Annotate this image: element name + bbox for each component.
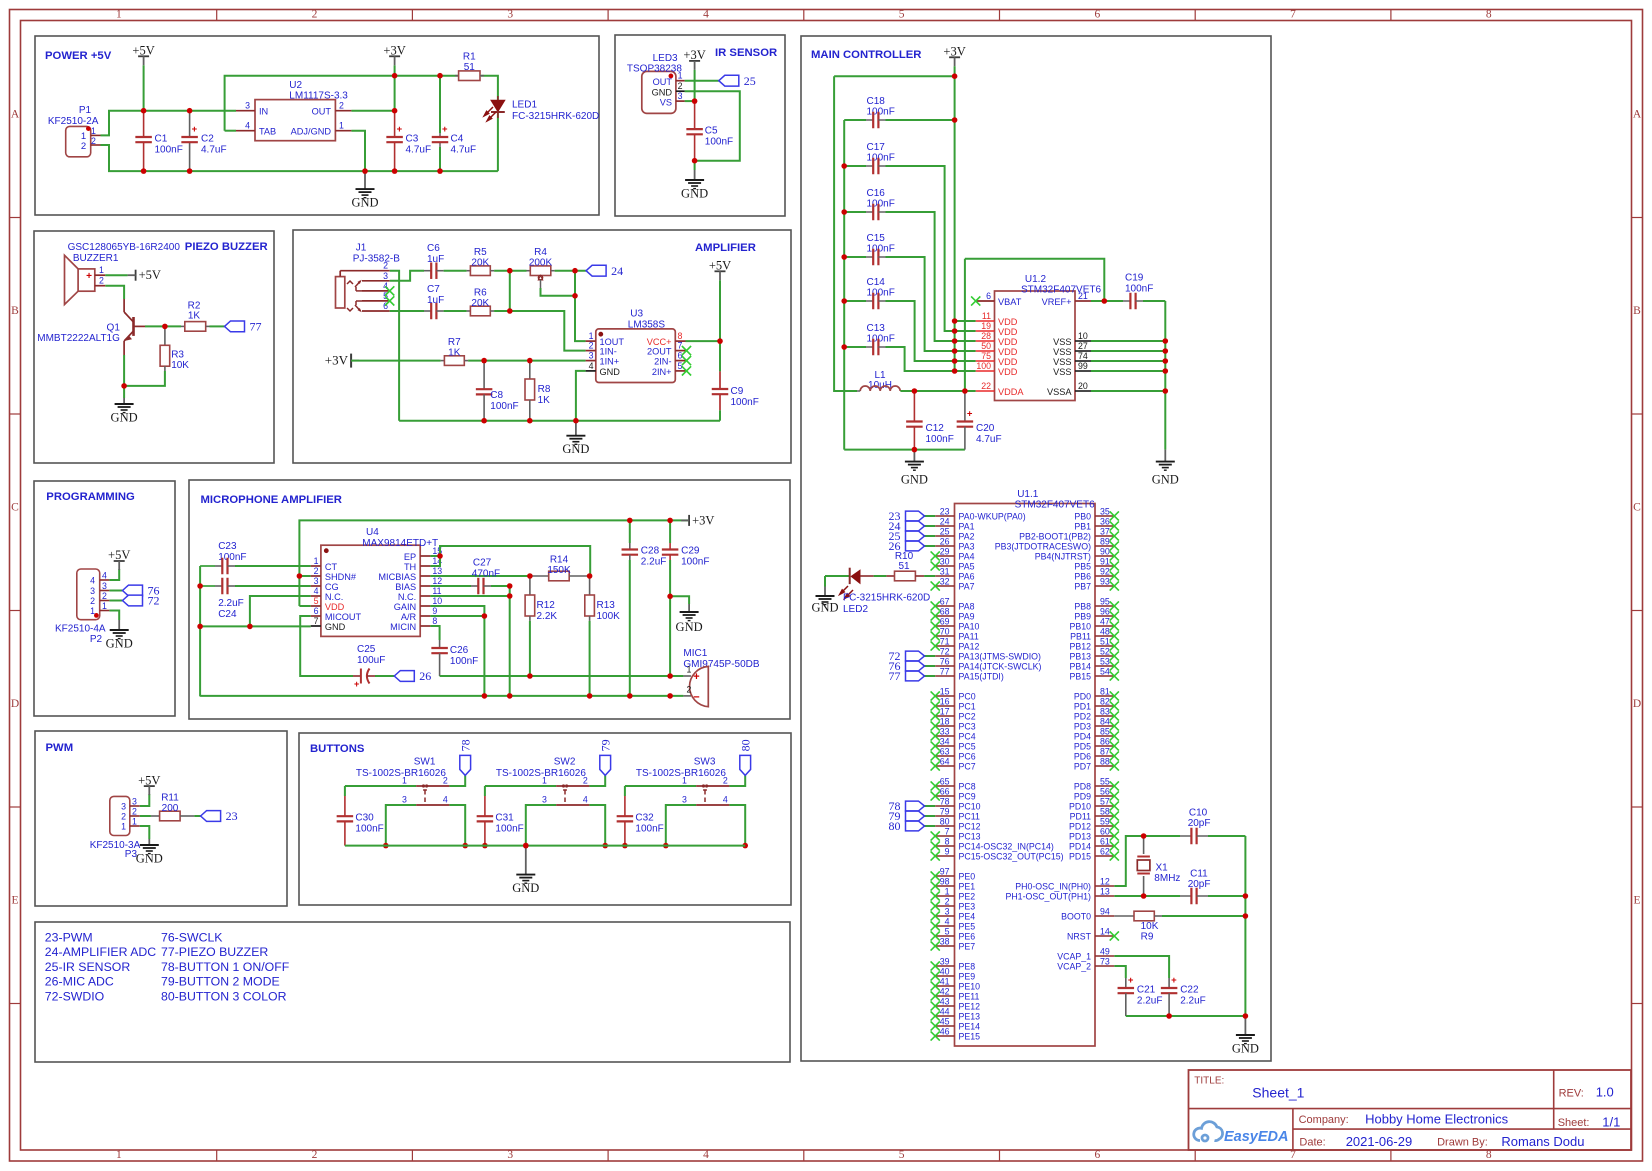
pin 94 BOOT0: [1095, 915, 1114, 917]
svg-text:P1: P1: [79, 105, 92, 116]
svg-text:2: 2: [91, 136, 96, 146]
svg-text:4: 4: [245, 121, 250, 131]
svg-text:3: 3: [132, 797, 137, 807]
pin 23 PA0-WKUP(PA0): [935, 515, 954, 517]
svg-text:39: 39: [940, 957, 950, 967]
pin 85 PD4: [1095, 735, 1114, 737]
wire ADJ to GND: [351, 131, 365, 171]
svg-text:E: E: [1633, 894, 1640, 906]
svg-text:93: 93: [1100, 577, 1110, 587]
svg-text:PC15-OSC32_OUT(PC15): PC15-OSC32_OUT(PC15): [959, 852, 1064, 862]
svg-text:2: 2: [383, 261, 388, 271]
svg-text:PC6: PC6: [959, 752, 976, 762]
svg-text:PE12: PE12: [959, 1002, 981, 1012]
wire C5 bottom to gnd: [694, 161, 696, 170]
svg-text:VSS: VSS: [1053, 337, 1071, 347]
svg-text:22: 22: [981, 381, 991, 391]
svg-text:20K: 20K: [471, 298, 489, 309]
svg-text:PE3: PE3: [959, 902, 976, 912]
wire C4 vertical: [439, 76, 441, 133]
svg-text:+5V: +5V: [132, 44, 154, 58]
svg-text:VBAT: VBAT: [998, 297, 1022, 307]
svg-text:PA0-WKUP(PA0): PA0-WKUP(PA0): [959, 512, 1026, 522]
svg-text:100nF: 100nF: [1125, 284, 1153, 295]
svg-text:20K: 20K: [471, 258, 489, 269]
capacitor C29 100nF: [669, 520, 671, 543]
svg-text:VDD: VDD: [998, 347, 1018, 357]
svg-text:SW1: SW1: [414, 757, 436, 768]
svg-text:EasyEDA: EasyEDA: [1224, 1129, 1288, 1145]
svg-text:2.2uF: 2.2uF: [218, 598, 244, 609]
svg-text:34: 34: [940, 737, 950, 747]
svg-text:STM32F407VET6: STM32F407VET6: [1021, 285, 1101, 296]
svg-text:46: 46: [940, 1027, 950, 1037]
svg-text:2.2uF: 2.2uF: [1180, 996, 1206, 1007]
+3V vertical: [954, 66, 956, 371]
svg-text:GND: GND: [600, 367, 621, 377]
wire P1.1 to U2.IN rail: [101, 111, 237, 136]
GAIN + A/R to rail: [430, 606, 484, 696]
svg-text:ADJ/GND: ADJ/GND: [291, 127, 332, 137]
pin 90 PB4(NJTRST): [1095, 555, 1114, 557]
svg-text:PB14: PB14: [1069, 662, 1091, 672]
svg-text:R7: R7: [448, 337, 461, 348]
svg-text:PB1: PB1: [1074, 522, 1091, 532]
pin 42 PE11: [935, 995, 954, 997]
svg-text:1: 1: [132, 817, 137, 827]
wire emitter to gnd: [123, 355, 125, 398]
U1.2 VREF wire over top: [964, 259, 966, 391]
svg-text:5: 5: [899, 1149, 905, 1161]
svg-text:+3V: +3V: [325, 353, 349, 368]
pin 66 PC9: [935, 795, 954, 797]
svg-text:3: 3: [245, 101, 250, 111]
+5V net flag: [715, 270, 726, 272]
svg-text:100nF: 100nF: [355, 824, 383, 835]
VSSA pin: [1075, 390, 1091, 392]
svg-text:VSSA: VSSA: [1047, 387, 1072, 397]
svg-text:PA10: PA10: [959, 622, 980, 632]
svg-text:PC11: PC11: [959, 812, 980, 822]
wire GND pin loop: [685, 91, 740, 161]
svg-text:C12: C12: [926, 423, 945, 434]
svg-text:4: 4: [90, 576, 95, 586]
svg-text:PA13(JTMS-SWDIO): PA13(JTMS-SWDIO): [959, 652, 1042, 662]
regulator U2 LM1117S-3.3: [255, 100, 335, 141]
svg-text:MMBT2222ALT1G: MMBT2222ALT1G: [37, 333, 120, 344]
svg-text:GND: GND: [901, 473, 928, 487]
svg-text:58: 58: [1100, 807, 1110, 817]
svg-text:2: 2: [99, 276, 104, 286]
port 79: [600, 755, 611, 775]
pin 17 PC2: [935, 715, 954, 717]
pin 8 PC14-OSC32_IN(PC14): [935, 845, 954, 847]
AMPLIFIER block: [293, 230, 791, 463]
resistor R1 51: [455, 75, 459, 77]
svg-text:77: 77: [250, 320, 262, 334]
svg-text:2.2uF: 2.2uF: [1137, 996, 1163, 1007]
svg-text:VS: VS: [660, 97, 672, 107]
svg-text:1IN+: 1IN+: [600, 357, 620, 367]
junction dots POWER: [141, 108, 147, 114]
svg-text:25: 25: [744, 74, 756, 88]
svg-text:C: C: [11, 501, 19, 513]
crystal X1 8MHz: [1143, 836, 1145, 854]
svg-text:PB4(NJTRST): PB4(NJTRST): [1035, 552, 1091, 562]
svg-text:PB10: PB10: [1069, 622, 1091, 632]
pins 3,4 row: [416, 804, 449, 806]
+5V net flag: [105, 274, 127, 276]
svg-text:C8: C8: [490, 390, 503, 401]
pin 79 PC11: [935, 815, 954, 817]
svg-text:PA3: PA3: [959, 542, 975, 552]
svg-text:100nF: 100nF: [635, 824, 663, 835]
svg-text:100nF: 100nF: [681, 557, 709, 568]
svg-text:70: 70: [940, 627, 950, 637]
svg-text:27: 27: [1078, 341, 1088, 351]
svg-text:+: +: [442, 124, 448, 135]
N.C.11 row: [430, 595, 509, 597]
svg-text:7: 7: [314, 616, 319, 626]
svg-text:200K: 200K: [529, 258, 553, 269]
svg-text:PB7: PB7: [1074, 582, 1091, 592]
svg-text:5: 5: [899, 9, 905, 21]
svg-text:3: 3: [682, 795, 687, 805]
svg-text:2: 2: [339, 101, 344, 111]
pin 69 PA10: [935, 625, 954, 627]
svg-text:8: 8: [678, 331, 683, 341]
svg-text:56: 56: [1100, 787, 1110, 797]
svg-text:3: 3: [945, 907, 950, 917]
capacitor C5 100nF: [694, 101, 696, 129]
svg-text:TH: TH: [404, 562, 416, 572]
svg-text:4: 4: [703, 1149, 709, 1161]
pin 31 PA6: [935, 575, 954, 577]
svg-text:IN: IN: [259, 107, 268, 117]
svg-text:25: 25: [940, 527, 950, 537]
svg-text:TAB: TAB: [259, 127, 276, 137]
svg-text:TSOP38238: TSOP38238: [627, 64, 682, 75]
svg-text:66: 66: [940, 787, 950, 797]
svg-text:24: 24: [940, 517, 950, 527]
svg-text:24-AMPLIFIER ADC: 24-AMPLIFIER ADC: [45, 945, 157, 959]
wire J1 pin2 to gnd rail: [390, 271, 399, 421]
capacitor C3 4.7uF: [386, 136, 403, 138]
svg-text:3: 3: [121, 802, 126, 812]
svg-text:PA8: PA8: [959, 602, 975, 612]
svg-text:100nF: 100nF: [490, 401, 518, 412]
svg-text:4.7uF: 4.7uF: [406, 145, 432, 156]
svg-text:GND: GND: [681, 187, 708, 201]
svg-text:11: 11: [432, 586, 441, 596]
svg-text:1: 1: [99, 265, 104, 275]
buzzer symbol: [65, 255, 79, 304]
svg-text:2021-06-29: 2021-06-29: [1346, 1134, 1413, 1149]
junction dots IR: [692, 98, 698, 104]
svg-text:PD2: PD2: [1074, 712, 1091, 722]
svg-text:PE8: PE8: [959, 962, 976, 972]
svg-text:50: 50: [981, 341, 991, 351]
svg-text:80: 80: [889, 819, 901, 833]
svg-text:SW3: SW3: [694, 757, 716, 768]
svg-text:1OUT: 1OUT: [600, 337, 625, 347]
svg-text:U1.2: U1.2: [1025, 274, 1047, 285]
svg-text:C26: C26: [450, 645, 469, 656]
pin 40 PE9: [935, 975, 954, 977]
svg-text:4: 4: [583, 795, 588, 805]
svg-text:PC8: PC8: [959, 782, 976, 792]
svg-text:GND: GND: [136, 852, 163, 866]
svg-text:PE2: PE2: [959, 892, 976, 902]
svg-text:44: 44: [940, 1007, 950, 1017]
svg-text:78: 78: [458, 739, 472, 751]
pin 63 PC6: [935, 755, 954, 757]
svg-text:57: 57: [1100, 797, 1110, 807]
pin 7 PC13: [935, 835, 954, 837]
pin 52 PB13: [1095, 655, 1114, 657]
svg-text:16: 16: [940, 697, 950, 707]
svg-text:12: 12: [1100, 877, 1110, 887]
svg-text:20: 20: [1078, 381, 1088, 391]
pin 91 PB5: [1095, 565, 1114, 567]
svg-text:PH1-OSC_OUT(PH1): PH1-OSC_OUT(PH1): [1005, 892, 1091, 902]
pin 76 PA14(JTCK-SWCLK): [935, 665, 954, 667]
U4 MAX9814ETD+T: [321, 545, 420, 636]
svg-text:100nF: 100nF: [867, 334, 895, 345]
svg-text:1: 1: [589, 331, 594, 341]
svg-text:PC4: PC4: [959, 732, 976, 742]
svg-text:78: 78: [940, 797, 950, 807]
svg-text:SW2: SW2: [554, 757, 576, 768]
svg-text:MAIN CONTROLLER: MAIN CONTROLLER: [811, 49, 921, 61]
svg-text:PA14(JTCK-SWCLK): PA14(JTCK-SWCLK): [959, 662, 1042, 672]
svg-text:2OUT: 2OUT: [647, 347, 672, 357]
svg-text:43: 43: [940, 997, 950, 1007]
svg-text:GND: GND: [111, 411, 138, 425]
svg-text:2: 2: [443, 776, 448, 786]
svg-text:KF2510-4A: KF2510-4A: [55, 624, 106, 635]
svg-text:+5V: +5V: [709, 259, 731, 273]
svg-text:R4: R4: [534, 247, 547, 258]
svg-text:GND: GND: [1152, 473, 1179, 487]
svg-text:77: 77: [940, 667, 950, 677]
resistor R13 100K: [589, 576, 591, 595]
pin 65 PC8: [935, 785, 954, 787]
svg-text:VCC+: VCC+: [647, 337, 672, 347]
svg-text:LED3: LED3: [653, 53, 678, 64]
svg-text:98: 98: [940, 877, 950, 887]
legend block: [35, 922, 790, 1062]
svg-text:36: 36: [1100, 517, 1110, 527]
svg-text:PA5: PA5: [959, 562, 975, 572]
svg-text:2.2uF: 2.2uF: [641, 557, 667, 568]
capacitor C22 2.2uF: [1168, 978, 1170, 988]
svg-text:35: 35: [1100, 507, 1110, 517]
capacitor C4 4.7uF: [432, 136, 449, 138]
ground left: [913, 450, 915, 462]
wire OUT to +3V node: [351, 110, 394, 112]
svg-text:VDD: VDD: [998, 357, 1018, 367]
svg-text:PB13: PB13: [1069, 652, 1091, 662]
wire pin2 to Q1 collector: [105, 286, 124, 299]
wire J1 pin3 to C6: [390, 271, 424, 281]
svg-text:2: 2: [945, 897, 950, 907]
pin 25 PA2: [935, 535, 954, 537]
pin 93 PB7: [1095, 585, 1114, 587]
svg-text:3: 3: [589, 351, 594, 361]
svg-text:PC0: PC0: [959, 692, 976, 702]
PWM block: [35, 731, 287, 906]
pin 39 PE8: [935, 965, 954, 967]
connector P2 KF2510-4A: [77, 569, 100, 620]
svg-text:R13: R13: [597, 600, 616, 611]
pin 30 PA5: [935, 565, 954, 567]
svg-text:100nF: 100nF: [155, 145, 183, 156]
wire row1: [625, 785, 696, 787]
svg-text:PB2-BOOT1(PB2): PB2-BOOT1(PB2): [1019, 532, 1091, 542]
svg-text:13: 13: [432, 566, 442, 576]
svg-text:69: 69: [940, 617, 950, 627]
resistor R11 200: [151, 815, 160, 817]
svg-text:PB12: PB12: [1069, 642, 1091, 652]
svg-text:VDDA: VDDA: [998, 387, 1024, 397]
resistor R5 20K: [467, 270, 471, 272]
svg-text:E: E: [11, 894, 18, 906]
svg-text:NRST: NRST: [1067, 932, 1092, 942]
svg-text:+5V: +5V: [138, 773, 160, 787]
svg-text:MICOUT: MICOUT: [325, 612, 362, 622]
svg-text:PC5: PC5: [959, 742, 976, 752]
svg-text:PA12: PA12: [959, 642, 980, 652]
svg-text:PC1: PC1: [959, 702, 976, 712]
svg-text:AMPLIFIER: AMPLIFIER: [695, 242, 756, 254]
svg-text:SHDN#: SHDN#: [325, 572, 357, 582]
pin 82 PD1: [1095, 705, 1114, 707]
svg-text:+: +: [693, 671, 699, 683]
svg-text:VDD: VDD: [998, 317, 1018, 327]
pin 61 PD14: [1095, 845, 1114, 847]
svg-text:9: 9: [432, 606, 437, 616]
svg-text:88: 88: [1100, 757, 1110, 767]
svg-text:GND: GND: [676, 620, 703, 634]
svg-text:2: 2: [687, 684, 692, 694]
svg-text:83: 83: [1100, 707, 1110, 717]
svg-text:78-BUTTON 1 ON/OFF: 78-BUTTON 1 ON/OFF: [161, 960, 290, 974]
junction dots amplifier: [507, 268, 513, 274]
svg-text:FC-3215HRK-620D: FC-3215HRK-620D: [512, 111, 599, 122]
svg-text:POWER +5V: POWER +5V: [45, 50, 112, 62]
svg-text:PA7: PA7: [959, 582, 975, 592]
svg-text:GND: GND: [652, 87, 673, 97]
svg-text:9: 9: [945, 847, 950, 857]
svg-text:62: 62: [1100, 847, 1110, 857]
svg-text:VDD: VDD: [998, 327, 1018, 337]
wire pin3 to rail: [526, 805, 556, 846]
svg-text:8MHz: 8MHz: [1154, 873, 1180, 884]
VDDA row: [900, 390, 975, 392]
wire C6 to R5: [444, 270, 467, 272]
BUTTONS block: [299, 733, 791, 905]
svg-text:PH0-OSC_IN(PH0): PH0-OSC_IN(PH0): [1015, 882, 1091, 892]
svg-text:OUT: OUT: [653, 77, 673, 87]
svg-text:IR SENSOR: IR SENSOR: [715, 47, 777, 59]
svg-text:PE7: PE7: [959, 942, 976, 952]
svg-text:100nF: 100nF: [731, 397, 759, 408]
svg-text:PE13: PE13: [959, 1012, 981, 1022]
svg-text:PB3(JTDOTRACESWO): PB3(JTDOTRACESWO): [995, 542, 1091, 552]
svg-text:PC2: PC2: [959, 712, 976, 722]
svg-text:13: 13: [1100, 887, 1110, 897]
svg-text:4.7uF: 4.7uF: [976, 434, 1002, 445]
svg-text:5: 5: [678, 361, 683, 371]
+3V net flag: [689, 60, 700, 62]
svg-text:6: 6: [1094, 1149, 1100, 1161]
pin 68 PA9: [935, 615, 954, 617]
svg-text:VSS: VSS: [1053, 347, 1071, 357]
pin 9 PC15-OSC32_OUT(PC15): [935, 855, 954, 857]
svg-text:23-PWM: 23-PWM: [45, 930, 93, 944]
potentiometer R4 200K: [527, 270, 531, 272]
svg-text:OUT: OUT: [312, 107, 332, 117]
svg-text:64: 64: [940, 757, 950, 767]
wire +3V vertical: [394, 65, 396, 110]
svg-text:84: 84: [1100, 717, 1110, 727]
pin 44 PE13: [935, 1015, 954, 1017]
pin 38 PE7: [935, 945, 954, 947]
pin 72 PA13(JTMS-SWDIO): [935, 655, 954, 657]
connector P3 KF2510-3A: [110, 796, 130, 835]
+3V rail top: [299, 520, 689, 606]
svg-text:−: −: [693, 692, 699, 704]
svg-text:PD4: PD4: [1074, 732, 1091, 742]
svg-text:80-BUTTON 3 COLOR: 80-BUTTON 3 COLOR: [161, 990, 287, 1004]
pin 83 PD2: [1095, 715, 1114, 717]
svg-text:PA2: PA2: [959, 532, 975, 542]
svg-text:R6: R6: [474, 288, 487, 299]
svg-text:PC9: PC9: [959, 792, 976, 802]
MICROPHONE AMPLIFIER block: [189, 480, 790, 719]
svg-text:71: 71: [940, 637, 950, 647]
wire pin4/port to rail: [729, 805, 745, 846]
svg-text:PC3: PC3: [959, 722, 976, 732]
svg-text:26: 26: [940, 537, 950, 547]
svg-text:4: 4: [443, 795, 448, 805]
svg-text:3: 3: [507, 1149, 513, 1161]
pin 46 PE15: [935, 1035, 954, 1037]
right vss vertical: [1164, 301, 1166, 450]
svg-text:26-MIC ADC: 26-MIC ADC: [45, 975, 114, 989]
svg-text:GMI9745P-50DB: GMI9745P-50DB: [683, 659, 759, 670]
pin 56 PD9: [1095, 795, 1114, 797]
SHDN# wire: [299, 575, 310, 577]
svg-text:99: 99: [1078, 361, 1088, 371]
svg-text:53: 53: [1100, 657, 1110, 667]
node A vertical: [494, 311, 585, 351]
svg-text:+: +: [967, 409, 973, 420]
capacitor C8 100nF: [483, 361, 485, 390]
svg-text:100nF: 100nF: [705, 137, 733, 148]
svg-text:3: 3: [678, 91, 683, 101]
wire R5 to node A: [494, 270, 526, 272]
svg-text:Q1: Q1: [107, 322, 121, 333]
svg-text:1: 1: [116, 1149, 122, 1161]
svg-text:4: 4: [945, 917, 950, 927]
svg-text:3: 3: [90, 586, 95, 596]
svg-text:C27: C27: [473, 558, 492, 569]
pin 96 PB9: [1095, 615, 1114, 617]
pin 3 PE4: [935, 915, 954, 917]
ground flag led2: [825, 575, 849, 577]
